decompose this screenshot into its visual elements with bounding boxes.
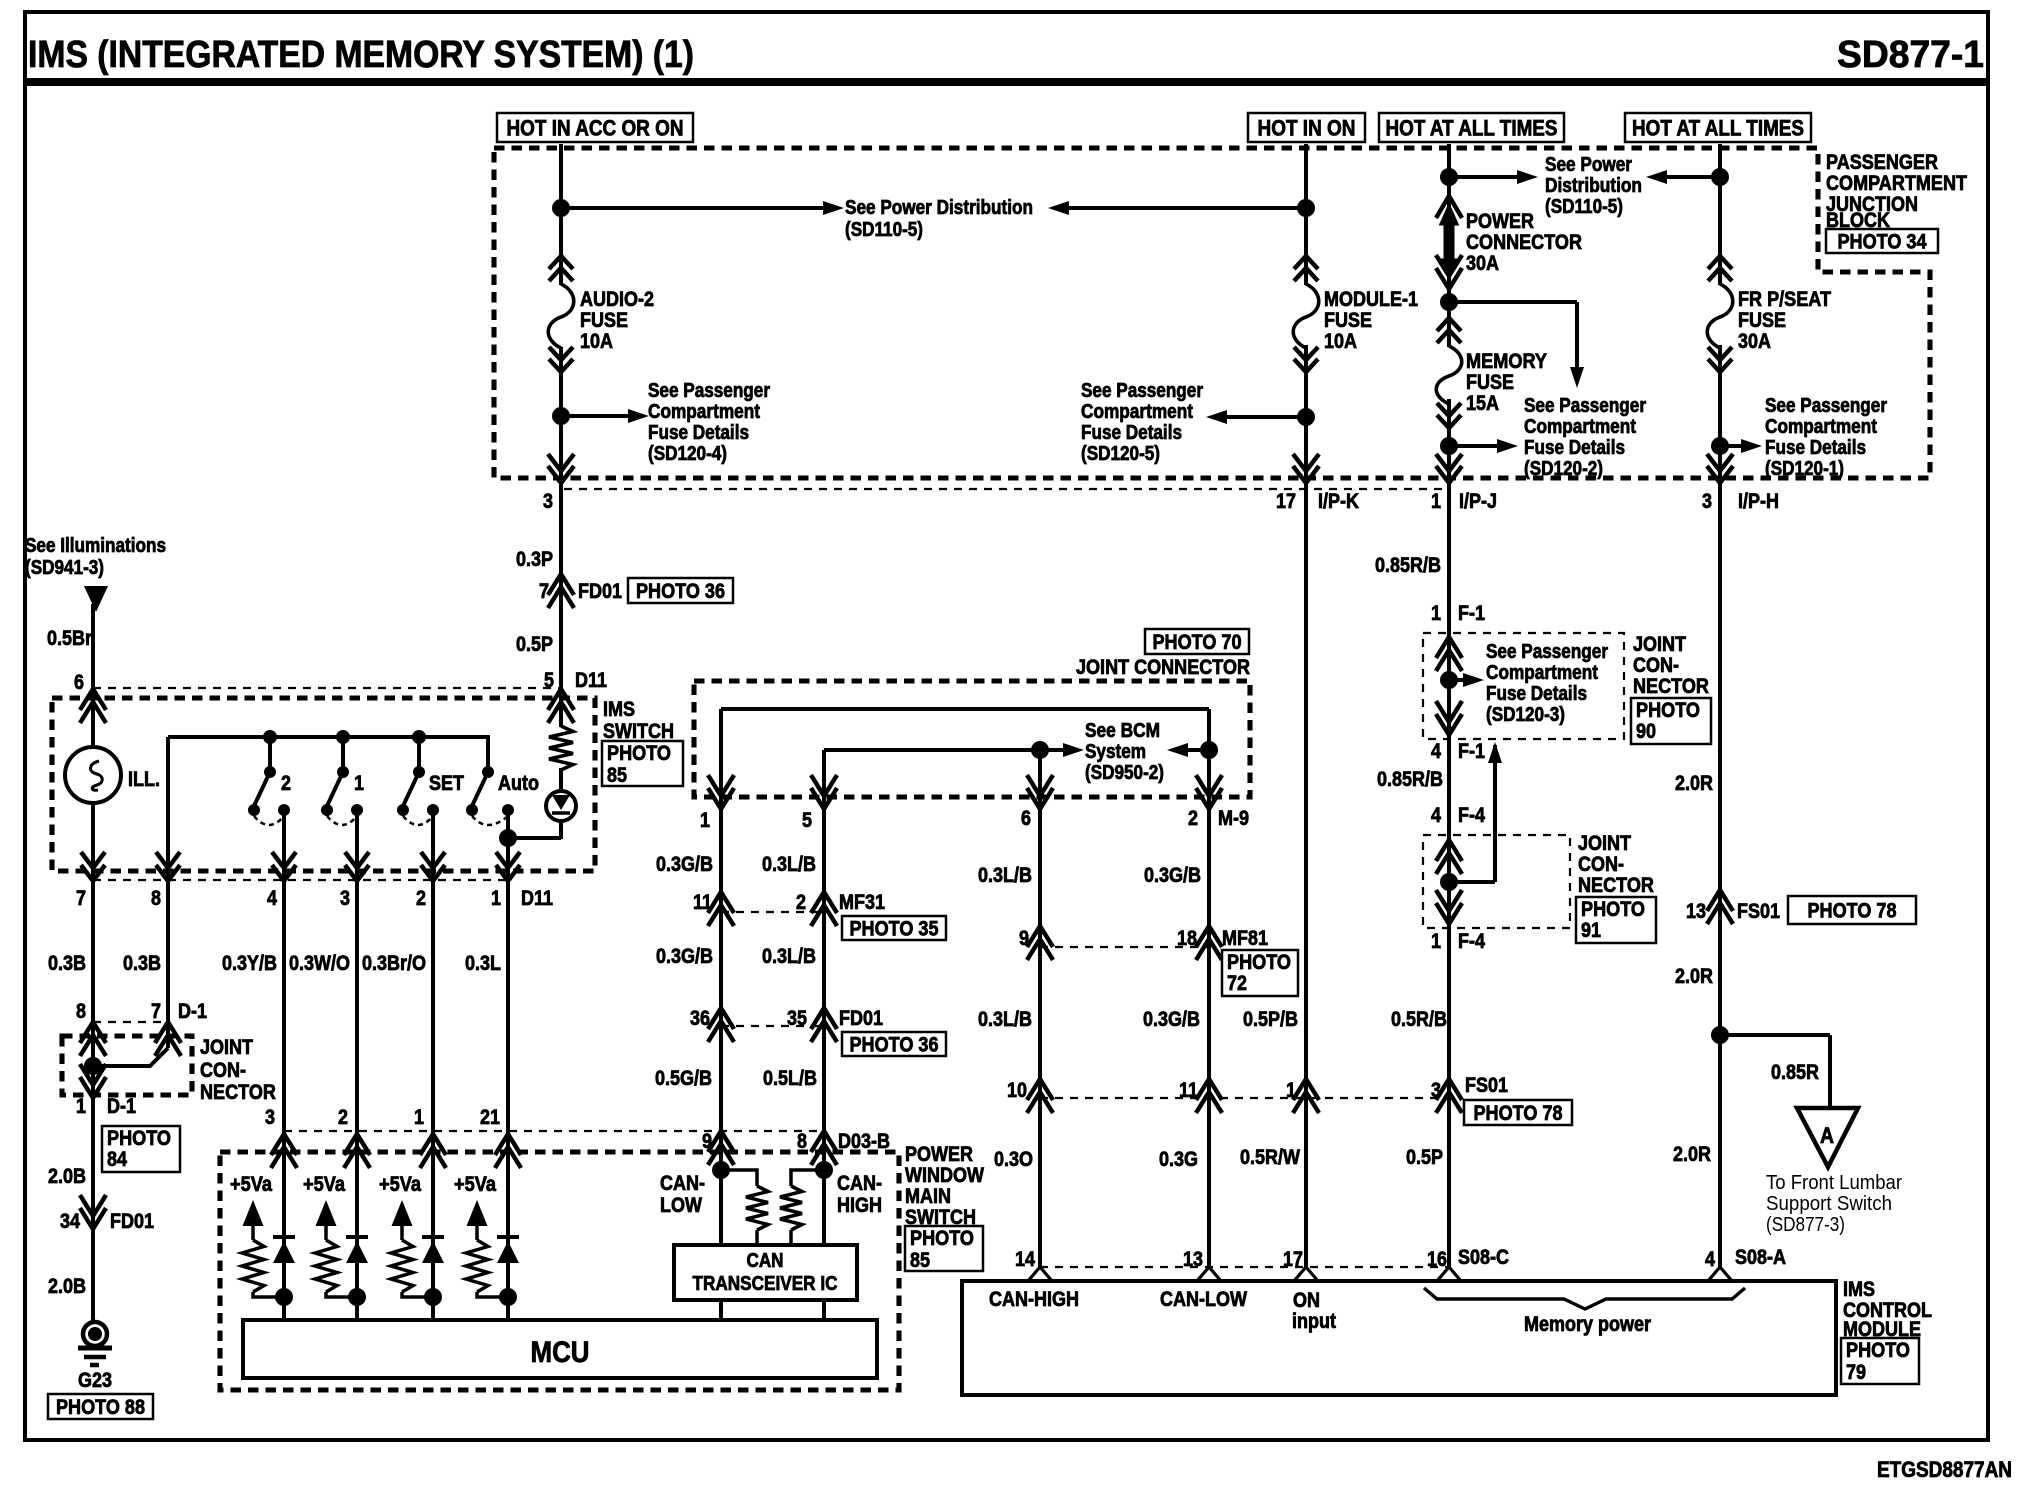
svg-text:CON-: CON-: [1578, 853, 1624, 876]
svg-text:MEMORY: MEMORY: [1466, 350, 1547, 373]
svg-text:16: 16: [1427, 1248, 1447, 1271]
svg-text:0.3B: 0.3B: [123, 952, 161, 975]
svg-text:1: 1: [1431, 930, 1441, 953]
svg-text:CAN-LOW: CAN-LOW: [1160, 1288, 1247, 1311]
svg-text:D11: D11: [521, 887, 553, 910]
svg-text:PHOTO: PHOTO: [107, 1127, 171, 1150]
svg-text:0.5G/B: 0.5G/B: [655, 1067, 712, 1090]
svg-text:I/P-H: I/P-H: [1738, 490, 1779, 513]
svg-text:3: 3: [265, 1106, 275, 1129]
svg-text:MODULE-1: MODULE-1: [1324, 288, 1418, 311]
svg-text:Compartment: Compartment: [1765, 416, 1877, 438]
svg-text:1: 1: [1431, 602, 1441, 625]
svg-text:Compartment: Compartment: [1524, 416, 1636, 438]
svg-text:30A: 30A: [1466, 252, 1499, 275]
svg-text:4: 4: [1705, 1248, 1715, 1271]
svg-text:21: 21: [480, 1106, 500, 1129]
svg-text:F-1: F-1: [1458, 602, 1485, 625]
svg-text:7: 7: [151, 1000, 161, 1023]
svg-text:IMS: IMS: [603, 698, 635, 721]
svg-text:(SD110-5): (SD110-5): [1545, 196, 1623, 218]
svg-text:PHOTO 70: PHOTO 70: [1153, 631, 1242, 654]
svg-text:72: 72: [1227, 972, 1247, 995]
svg-text:Support Switch: Support Switch: [1766, 1193, 1892, 1215]
svg-text:(SD120-1): (SD120-1): [1765, 458, 1844, 480]
svg-text:0.3L/B: 0.3L/B: [978, 1008, 1032, 1031]
svg-text:1: 1: [1431, 490, 1441, 513]
svg-text:S08-A: S08-A: [1735, 1246, 1786, 1269]
svg-text:WINDOW: WINDOW: [905, 1164, 984, 1187]
svg-text:1: 1: [491, 887, 501, 910]
svg-text:2: 2: [796, 891, 806, 914]
svg-text:1: 1: [414, 1106, 424, 1129]
svg-text:10: 10: [1007, 1079, 1027, 1102]
svg-text:0.3G/B: 0.3G/B: [1143, 1008, 1200, 1031]
svg-text:MCU: MCU: [531, 1336, 590, 1369]
svg-text:4: 4: [267, 887, 277, 910]
svg-text:CONNECTOR: CONNECTOR: [1466, 231, 1582, 254]
svg-text:See Power: See Power: [1545, 154, 1632, 176]
svg-text:3: 3: [340, 887, 350, 910]
svg-text:PHOTO 36: PHOTO 36: [636, 580, 725, 603]
svg-text:2: 2: [281, 772, 291, 795]
svg-text:3: 3: [1702, 490, 1712, 513]
svg-text:(SD120-2): (SD120-2): [1524, 458, 1603, 480]
svg-text:F-4: F-4: [1458, 930, 1485, 953]
svg-text:8: 8: [76, 1000, 86, 1023]
svg-text:18: 18: [1177, 927, 1197, 950]
svg-text:IMS (INTEGRATED MEMORY SYSTEM): IMS (INTEGRATED MEMORY SYSTEM) (1): [28, 34, 694, 76]
svg-text:0.5P: 0.5P: [1406, 1146, 1443, 1169]
svg-text:PHOTO: PHOTO: [1636, 699, 1700, 722]
svg-text:84: 84: [107, 1148, 127, 1171]
svg-text:9: 9: [702, 1130, 712, 1153]
svg-text:FD01: FD01: [839, 1007, 883, 1030]
svg-text:PHOTO: PHOTO: [607, 742, 671, 765]
svg-text:Fuse Details: Fuse Details: [1081, 422, 1182, 444]
svg-text:HOT IN ON: HOT IN ON: [1258, 115, 1356, 140]
svg-text:F-1: F-1: [1458, 740, 1485, 763]
svg-text:85: 85: [910, 1249, 930, 1272]
svg-text:1: 1: [700, 809, 710, 832]
svg-text:System: System: [1085, 741, 1146, 763]
svg-text:SWITCH: SWITCH: [603, 720, 674, 743]
svg-text:CAN-HIGH: CAN-HIGH: [989, 1288, 1079, 1311]
svg-text:FS01: FS01: [1737, 900, 1780, 923]
svg-text:MF81: MF81: [1222, 927, 1268, 950]
svg-text:17: 17: [1283, 1248, 1303, 1271]
svg-text:1: 1: [1286, 1079, 1296, 1102]
svg-text:FUSE: FUSE: [1324, 309, 1372, 332]
svg-text:5: 5: [802, 809, 812, 832]
svg-text:Memory power: Memory power: [1524, 1313, 1651, 1336]
svg-text:To Front Lumbar: To Front Lumbar: [1766, 1172, 1902, 1194]
svg-text:79: 79: [1846, 1361, 1866, 1384]
svg-text:PASSENGER: PASSENGER: [1826, 151, 1938, 174]
svg-text:3: 3: [1431, 1079, 1441, 1102]
svg-text:0.3L/B: 0.3L/B: [762, 853, 816, 876]
svg-text:0.3Y/B: 0.3Y/B: [222, 952, 277, 975]
svg-text:0.5Br: 0.5Br: [47, 627, 92, 650]
svg-text:D03-B: D03-B: [838, 1130, 890, 1153]
svg-text:CON-: CON-: [200, 1059, 246, 1082]
svg-text:85: 85: [607, 764, 627, 787]
svg-text:0.3G/B: 0.3G/B: [1144, 864, 1201, 887]
svg-text:Distribution: Distribution: [1545, 175, 1642, 197]
svg-text:NECTOR: NECTOR: [1633, 675, 1709, 698]
svg-text:1: 1: [76, 1095, 86, 1118]
svg-text:JOINT: JOINT: [1633, 633, 1686, 656]
svg-text:ILL.: ILL.: [128, 768, 160, 791]
svg-text:6: 6: [1021, 807, 1031, 830]
svg-text:0.3B: 0.3B: [48, 952, 86, 975]
svg-text:(SD120-3): (SD120-3): [1486, 704, 1565, 726]
svg-text:D-1: D-1: [107, 1095, 136, 1118]
svg-text:ON: ON: [1293, 1289, 1320, 1312]
svg-text:Auto: Auto: [498, 772, 539, 795]
svg-text:See Passenger: See Passenger: [1765, 395, 1887, 417]
svg-text:D11: D11: [575, 669, 607, 692]
svg-text:I/P-K: I/P-K: [1318, 490, 1359, 513]
svg-text:HOT IN ACC OR ON: HOT IN ACC OR ON: [507, 115, 684, 140]
svg-text:LOW: LOW: [660, 1194, 702, 1217]
svg-text:15A: 15A: [1466, 392, 1499, 415]
svg-text:(SD120-4): (SD120-4): [648, 443, 727, 465]
svg-text:0.5P/B: 0.5P/B: [1243, 1008, 1298, 1031]
svg-text:2.0R: 2.0R: [1673, 1143, 1711, 1166]
svg-text:NECTOR: NECTOR: [1578, 874, 1654, 897]
svg-text:FUSE: FUSE: [1738, 309, 1786, 332]
svg-text:14: 14: [1015, 1248, 1035, 1271]
svg-text:2: 2: [338, 1106, 348, 1129]
svg-text:8: 8: [797, 1130, 807, 1153]
svg-text:PHOTO 34: PHOTO 34: [1838, 231, 1927, 254]
svg-text:See BCM: See BCM: [1085, 720, 1160, 742]
svg-text:2: 2: [1188, 807, 1198, 830]
svg-text:FR P/SEAT: FR P/SEAT: [1738, 288, 1831, 311]
svg-text:NECTOR: NECTOR: [200, 1081, 276, 1104]
svg-text:FS01: FS01: [1465, 1074, 1508, 1097]
svg-text:0.3O: 0.3O: [994, 1148, 1033, 1171]
svg-text:Fuse Details: Fuse Details: [1524, 437, 1625, 459]
svg-text:M-9: M-9: [1218, 807, 1249, 830]
svg-text:PHOTO: PHOTO: [1846, 1339, 1910, 1362]
svg-text:FUSE: FUSE: [1466, 371, 1514, 394]
svg-text:PHOTO 78: PHOTO 78: [1474, 1102, 1563, 1125]
svg-text:13: 13: [1686, 900, 1706, 923]
svg-text:1: 1: [354, 772, 364, 795]
svg-text:17: 17: [1276, 490, 1296, 513]
svg-text:PHOTO 88: PHOTO 88: [56, 1396, 145, 1419]
svg-text:2.0B: 2.0B: [48, 1275, 86, 1298]
svg-text:0.3Br/O: 0.3Br/O: [362, 952, 426, 975]
svg-text:See Power Distribution: See Power Distribution: [845, 197, 1033, 219]
svg-text:+5Va: +5Va: [230, 1173, 272, 1196]
svg-text:(SD877-3): (SD877-3): [1766, 1214, 1845, 1236]
svg-text:SD877-1: SD877-1: [1837, 34, 1984, 76]
svg-text:0.5P: 0.5P: [516, 633, 553, 656]
svg-text:TRANSCEIVER IC: TRANSCEIVER IC: [693, 1273, 838, 1295]
svg-text:G23: G23: [78, 1369, 112, 1392]
svg-text:FD01: FD01: [110, 1210, 154, 1233]
svg-text:POWER: POWER: [905, 1143, 973, 1166]
svg-text:0.3G/B: 0.3G/B: [656, 853, 713, 876]
svg-text:0.3L/B: 0.3L/B: [978, 864, 1032, 887]
svg-text:PHOTO: PHOTO: [1227, 951, 1291, 974]
svg-text:11: 11: [1179, 1079, 1198, 1102]
svg-text:0.5R/W: 0.5R/W: [1240, 1146, 1300, 1169]
svg-text:91: 91: [1581, 919, 1601, 942]
svg-text:Compartment: Compartment: [1486, 662, 1598, 684]
svg-text:Compartment: Compartment: [648, 401, 760, 423]
svg-text:PHOTO: PHOTO: [1581, 898, 1645, 921]
svg-text:HOT AT ALL TIMES: HOT AT ALL TIMES: [1632, 115, 1804, 140]
svg-text:Fuse Details: Fuse Details: [1486, 683, 1587, 705]
svg-text:JOINT: JOINT: [1578, 832, 1631, 855]
svg-text:ETGSD8877AN: ETGSD8877AN: [1877, 1457, 2012, 1482]
svg-text:2.0R: 2.0R: [1675, 965, 1713, 988]
svg-text:35: 35: [787, 1007, 807, 1030]
svg-text:0.85R/B: 0.85R/B: [1377, 768, 1443, 791]
svg-text:34: 34: [60, 1210, 80, 1233]
svg-text:PHOTO: PHOTO: [910, 1227, 974, 1250]
svg-text:D-1: D-1: [178, 1000, 207, 1023]
svg-text:10A: 10A: [580, 330, 613, 353]
svg-text:CAN-: CAN-: [660, 1172, 705, 1195]
svg-text:FD01: FD01: [578, 580, 622, 603]
svg-text:See Passenger: See Passenger: [1081, 380, 1203, 402]
svg-text:(SD941-3): (SD941-3): [25, 557, 104, 579]
svg-text:CAN: CAN: [747, 1250, 784, 1272]
svg-text:POWER: POWER: [1466, 210, 1534, 233]
svg-text:(SD950-2): (SD950-2): [1085, 762, 1164, 784]
svg-text:COMPARTMENT: COMPARTMENT: [1826, 172, 1967, 195]
svg-text:See Passenger: See Passenger: [1486, 641, 1608, 663]
svg-text:(SD120-5): (SD120-5): [1081, 443, 1160, 465]
svg-text:CAN-: CAN-: [837, 1172, 882, 1195]
svg-text:S08-C: S08-C: [1458, 1246, 1509, 1269]
svg-text:input: input: [1292, 1310, 1336, 1333]
svg-text:F-4: F-4: [1458, 804, 1485, 827]
svg-text:0.3W/O: 0.3W/O: [289, 952, 350, 975]
svg-text:8: 8: [151, 887, 161, 910]
svg-text:30A: 30A: [1738, 330, 1771, 353]
svg-text:(SD110-5): (SD110-5): [845, 219, 923, 241]
svg-text:13: 13: [1183, 1248, 1203, 1271]
svg-text:PHOTO 78: PHOTO 78: [1808, 900, 1897, 923]
svg-text:+5Va: +5Va: [303, 1173, 345, 1196]
svg-text:10A: 10A: [1324, 330, 1357, 353]
svg-text:CON-: CON-: [1633, 654, 1679, 677]
svg-text:4: 4: [1431, 740, 1441, 763]
svg-text:3: 3: [543, 490, 553, 513]
svg-text:0.3G/B: 0.3G/B: [656, 945, 713, 968]
svg-text:FUSE: FUSE: [580, 309, 628, 332]
svg-text:PHOTO 36: PHOTO 36: [850, 1034, 939, 1057]
svg-text:36: 36: [690, 1007, 710, 1030]
svg-text:A: A: [1820, 1123, 1834, 1148]
svg-text:I/P-J: I/P-J: [1459, 490, 1497, 513]
svg-text:0.3L: 0.3L: [465, 952, 501, 975]
svg-text:Compartment: Compartment: [1081, 401, 1193, 423]
svg-text:7: 7: [76, 887, 86, 910]
svg-text:0.3G: 0.3G: [1159, 1148, 1198, 1171]
svg-text:Fuse Details: Fuse Details: [648, 422, 749, 444]
svg-text:AUDIO-2: AUDIO-2: [580, 288, 654, 311]
svg-text:2.0B: 2.0B: [48, 1165, 86, 1188]
svg-text:+5Va: +5Va: [379, 1173, 421, 1196]
svg-text:0.3P: 0.3P: [516, 548, 553, 571]
svg-text:2: 2: [416, 887, 426, 910]
svg-text:JOINT: JOINT: [200, 1036, 253, 1059]
svg-text:Fuse Details: Fuse Details: [1765, 437, 1866, 459]
svg-text:4: 4: [1431, 804, 1441, 827]
svg-text:2.0R: 2.0R: [1675, 772, 1713, 795]
svg-text:See Passenger: See Passenger: [1524, 395, 1646, 417]
svg-text:9: 9: [1019, 927, 1029, 950]
svg-text:JOINT CONNECTOR: JOINT CONNECTOR: [1076, 656, 1250, 679]
svg-text:0.5L/B: 0.5L/B: [763, 1067, 817, 1090]
svg-text:MF31: MF31: [839, 891, 885, 914]
svg-text:11: 11: [693, 891, 712, 914]
svg-text:7: 7: [539, 580, 549, 603]
svg-text:90: 90: [1636, 720, 1656, 743]
svg-text:+5Va: +5Va: [454, 1173, 496, 1196]
svg-text:IMS: IMS: [1843, 1278, 1875, 1301]
svg-text:PHOTO 35: PHOTO 35: [850, 918, 939, 941]
svg-text:SET: SET: [429, 772, 464, 795]
svg-text:HIGH: HIGH: [837, 1194, 882, 1217]
svg-text:MAIN: MAIN: [905, 1185, 951, 1208]
svg-text:0.85R: 0.85R: [1771, 1061, 1819, 1084]
svg-text:0.3L/B: 0.3L/B: [762, 945, 816, 968]
svg-text:6: 6: [74, 671, 84, 694]
svg-text:See Passenger: See Passenger: [648, 380, 770, 402]
svg-text:HOT AT ALL TIMES: HOT AT ALL TIMES: [1386, 115, 1558, 140]
svg-text:See Illuminations: See Illuminations: [25, 535, 166, 557]
svg-text:0.85R/B: 0.85R/B: [1375, 554, 1441, 577]
svg-text:5: 5: [544, 669, 554, 692]
svg-text:0.5R/B: 0.5R/B: [1391, 1008, 1447, 1031]
